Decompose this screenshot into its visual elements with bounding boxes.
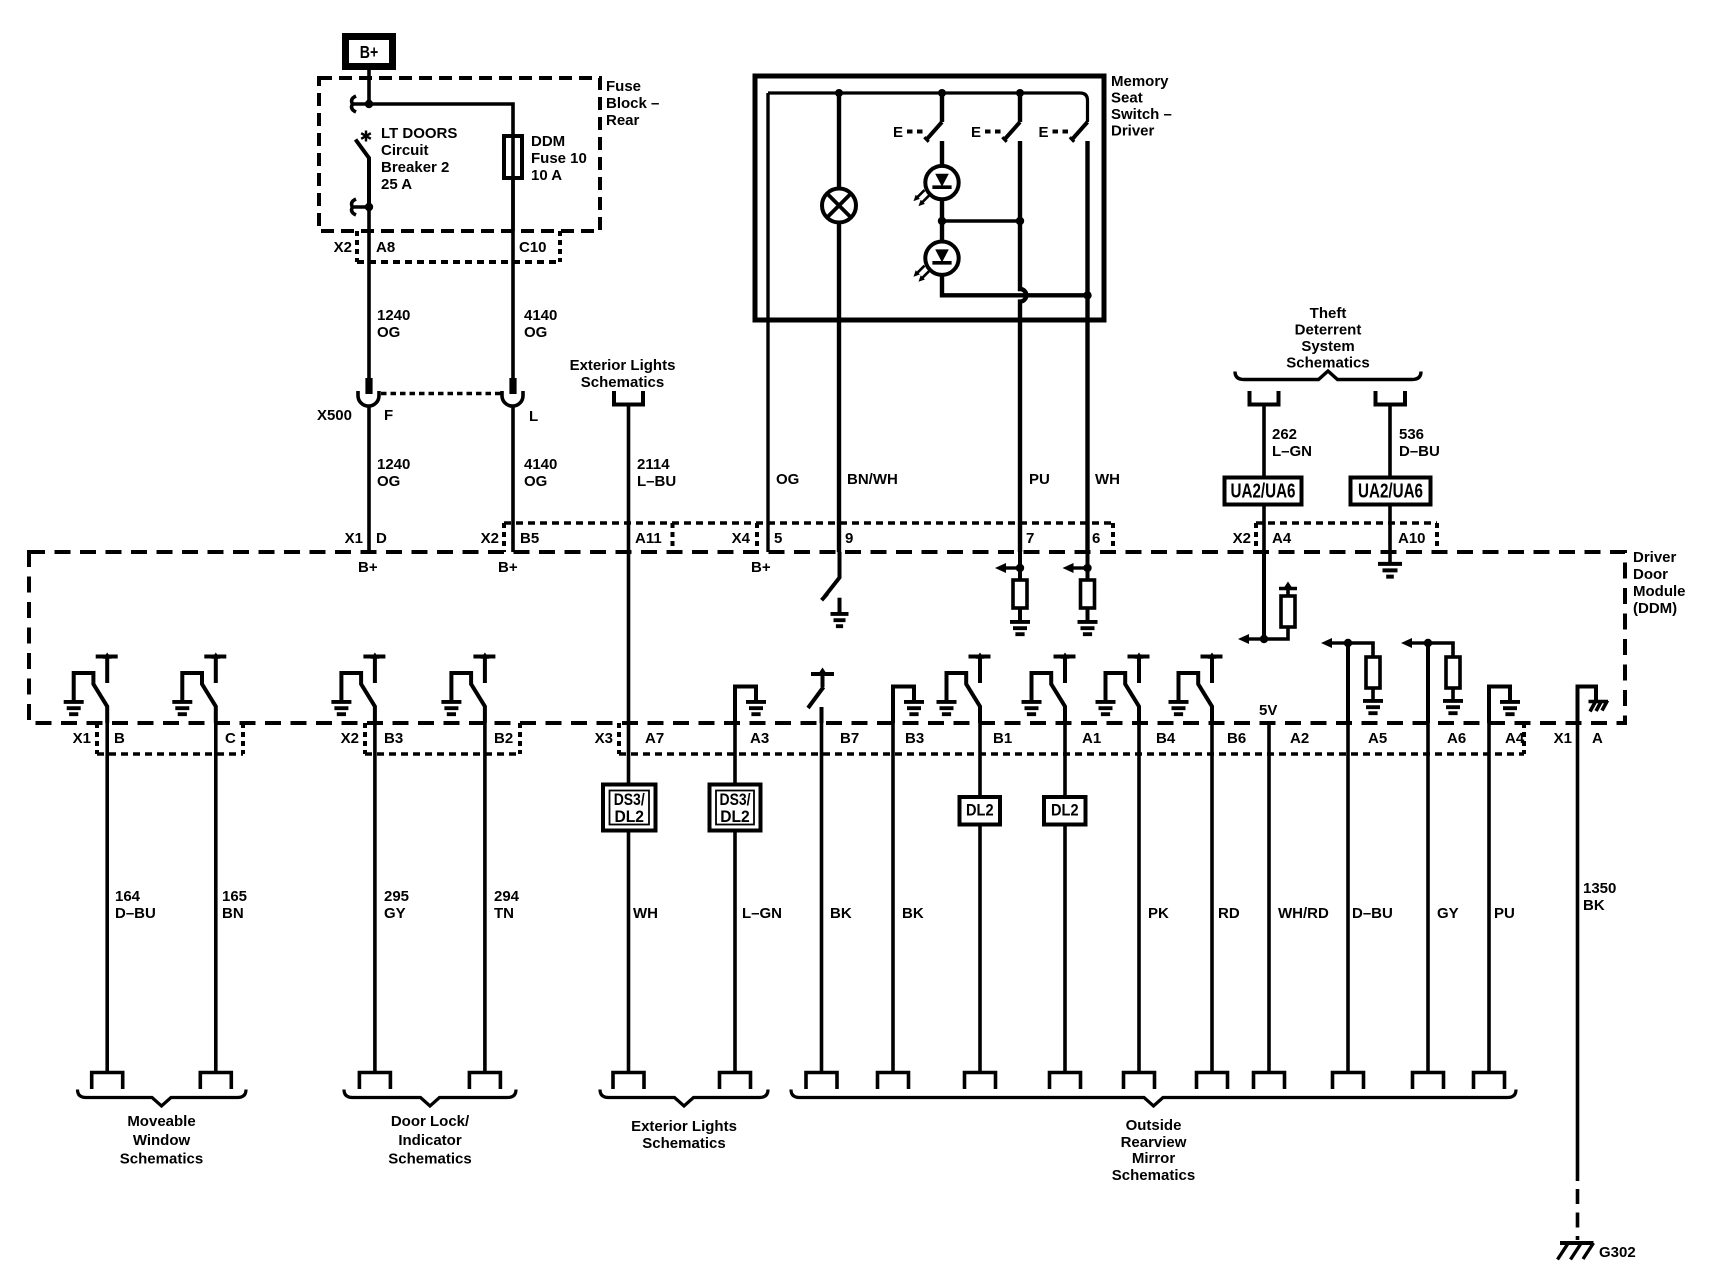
terminal connector 6: [720, 1073, 751, 1090]
wire drop 4: [483, 723, 487, 1073]
svg-text:Schematics: Schematics: [388, 1151, 471, 1168]
svg-text:10 A: 10 A: [531, 167, 562, 184]
svg-text:262: 262: [1272, 426, 1297, 443]
svg-text:Rearview: Rearview: [1121, 1134, 1187, 1151]
svg-text:L: L: [529, 408, 538, 425]
svg-text:164: 164: [115, 888, 141, 905]
ground A10: [1378, 564, 1402, 577]
wire UA2 right to A10: [1388, 506, 1392, 562]
ground hook A3: [735, 687, 756, 724]
node bus switch2 tap: [1016, 89, 1024, 97]
svg-text:L–GN: L–GN: [742, 905, 782, 922]
off-page connector 262: [1248, 391, 1281, 405]
svg-text:X1: X1: [345, 530, 363, 547]
svg-text:Door Lock/: Door Lock/: [391, 1113, 470, 1130]
svg-text:A1: A1: [1082, 730, 1101, 747]
dashed link between X500 halves: [381, 392, 501, 396]
wire internal bus: [768, 93, 1088, 122]
wire drop 16: [1487, 723, 1491, 1073]
switch mirror A1: [1061, 653, 1070, 659]
svg-text:7: 7: [1026, 530, 1034, 547]
svg-text:B+: B+: [360, 42, 379, 62]
svg-text:F: F: [384, 407, 393, 424]
svg-text:PU: PU: [1029, 471, 1050, 488]
LED indicator 1: [925, 166, 958, 199]
svg-text:4140: 4140: [524, 456, 557, 473]
wire A11 through module: [627, 552, 631, 723]
brace theft deterrent: [1235, 371, 1421, 380]
svg-text:5: 5: [774, 530, 782, 547]
wire 2114 to DDM A11: [627, 405, 631, 553]
resistor pin6 branch: [1086, 552, 1090, 620]
svg-text:Schematics: Schematics: [120, 1151, 203, 1168]
svg-text:5V: 5V: [1259, 702, 1277, 719]
wire LED junction link: [942, 219, 1020, 222]
terminal connector 13: [1254, 1073, 1285, 1090]
svg-text:DL2: DL2: [720, 807, 750, 826]
switch pin9 door lock: [822, 552, 840, 600]
svg-text:X2: X2: [341, 730, 359, 747]
off-page connector exterior lights: [612, 391, 645, 405]
svg-text:C: C: [225, 730, 236, 747]
wire L to DDM X2 B5: [511, 406, 515, 552]
svg-text:L–BU: L–BU: [637, 473, 676, 490]
node pin6 junction: [1083, 291, 1091, 299]
memory seat switch box: [755, 76, 1104, 320]
svg-text:295: 295: [384, 888, 409, 905]
wire drop 14: [1346, 723, 1350, 1073]
wire S1 to LED1: [940, 141, 944, 166]
svg-text:4140: 4140: [524, 307, 557, 324]
wire S2 to pin7 with hop: [1020, 141, 1026, 552]
wire drop 5: [627, 723, 631, 1073]
splice DS3/DL2 left: [603, 785, 656, 831]
ground pin9: [838, 598, 842, 612]
svg-text:Switch –: Switch –: [1111, 106, 1172, 123]
switch memory S3 blade: [1072, 122, 1088, 140]
inline connector X500 pin L: [509, 378, 516, 394]
node junction below breaker: [365, 203, 373, 211]
wire F to DDM X1 D: [367, 406, 371, 552]
wire drop 8: [891, 723, 895, 1073]
output network A5: [1346, 643, 1350, 723]
svg-text:DL2: DL2: [614, 807, 644, 826]
brace exterior lights: [600, 1090, 768, 1107]
switch unlock B2: [481, 653, 490, 659]
wire drop 13: [1267, 723, 1271, 1073]
wire pin5 feed: [766, 93, 769, 552]
svg-text:A10: A10: [1398, 530, 1426, 547]
switch memory S2 stub: [1018, 93, 1022, 122]
theft input network A4: [1262, 552, 1266, 639]
wire C10 to X500: [511, 178, 515, 378]
svg-text:BK: BK: [830, 905, 852, 922]
svg-text:WH: WH: [633, 905, 658, 922]
svg-text:Window: Window: [133, 1132, 191, 1149]
svg-text:DL2: DL2: [1051, 802, 1079, 820]
svg-text:X2: X2: [334, 239, 352, 256]
wire drop 11: [1137, 723, 1141, 1073]
terminal connector 14: [1333, 1073, 1364, 1090]
chassis ground G302: [1560, 1241, 1594, 1245]
svg-text:Memory: Memory: [1111, 73, 1169, 90]
connector row bottom dashes: [97, 752, 1524, 756]
connector row top dashes: [504, 521, 1113, 525]
svg-text:OG: OG: [524, 324, 547, 341]
svg-text:X2: X2: [481, 530, 499, 547]
svg-text:165: 165: [222, 888, 247, 905]
svg-text:OG: OG: [377, 324, 400, 341]
svg-text:1240: 1240: [377, 456, 410, 473]
svg-text:D–BU: D–BU: [1352, 905, 1393, 922]
wire dashed to G302: [1576, 1189, 1580, 1240]
terminal connector 3: [359, 1073, 390, 1090]
svg-text:B+: B+: [498, 559, 518, 576]
terminal connector 4: [469, 1073, 500, 1090]
svg-text:X2: X2: [1233, 530, 1251, 547]
wire drop 2: [214, 723, 218, 1073]
switch lever B7: [808, 674, 834, 708]
ground hook A4: [1489, 687, 1510, 724]
brace door lock indicator: [344, 1090, 516, 1107]
svg-text:Schematics: Schematics: [642, 1135, 725, 1152]
svg-text:A11: A11: [635, 530, 662, 547]
wire drop 7: [820, 723, 824, 1073]
output network A6: [1426, 643, 1430, 723]
svg-text:E: E: [1038, 124, 1048, 141]
svg-text:DL2: DL2: [966, 802, 994, 820]
connector row X2 fuse block bottom dashes: [357, 260, 560, 264]
switch mirror B4: [1135, 653, 1144, 659]
svg-text:B3: B3: [905, 730, 924, 747]
svg-text:B6: B6: [1227, 730, 1246, 747]
svg-text:Deterrent: Deterrent: [1295, 322, 1362, 339]
node LED junction left: [938, 217, 946, 225]
terminal connector 2: [200, 1073, 231, 1090]
splice DS3/DL2 right: [710, 785, 761, 831]
splice DL2 left: [960, 797, 1001, 825]
node junction B+ bus: [365, 100, 373, 108]
svg-text:A4: A4: [1505, 730, 1525, 747]
circuit breaker CB2 asterisk: [361, 131, 371, 142]
fuse DDM Fuse 10: [504, 136, 522, 178]
wire LED1 to LED2: [940, 199, 944, 241]
terminal connector 7: [806, 1073, 837, 1090]
svg-text:B+: B+: [751, 559, 771, 576]
terminal connector 11: [1124, 1073, 1155, 1090]
svg-text:A7: A7: [645, 730, 664, 747]
svg-text:E: E: [971, 124, 981, 141]
svg-text:OG: OG: [377, 473, 400, 490]
svg-text:WH: WH: [1095, 471, 1120, 488]
splice pack UA2/UA6 right: [1351, 478, 1431, 505]
svg-text:Theft: Theft: [1310, 305, 1347, 322]
svg-text:TN: TN: [494, 905, 514, 922]
svg-text:OG: OG: [776, 471, 799, 488]
svg-text:Schematics: Schematics: [1112, 1167, 1195, 1184]
svg-text:B+: B+: [358, 559, 378, 576]
wire drop 9: [978, 723, 982, 1073]
svg-text:B: B: [114, 730, 125, 747]
wire drop 1: [105, 723, 109, 1073]
wire 536 to UA2: [1388, 405, 1392, 477]
wire S3 to pin6: [1085, 141, 1089, 552]
svg-text:Outside: Outside: [1126, 1117, 1182, 1134]
svg-text:9: 9: [845, 530, 853, 547]
svg-text:LT DOORS: LT DOORS: [381, 125, 457, 142]
brace outside rearview mirror: [791, 1090, 1516, 1107]
wire UA2 left to A4: [1262, 506, 1266, 639]
wire drop 12: [1210, 723, 1214, 1073]
switch memory S2 blade: [1005, 122, 1021, 140]
circuit breaker CB2 top hook: [352, 96, 369, 112]
driver door module dashed box: [29, 552, 1625, 723]
wire drop A 1350 BK: [1576, 723, 1580, 1181]
brace moveable window: [78, 1090, 247, 1107]
svg-text:GY: GY: [1437, 905, 1459, 922]
terminal connector 9: [965, 1073, 996, 1090]
LED indicator 2: [925, 242, 958, 275]
svg-text:B4: B4: [1156, 730, 1176, 747]
svg-text:BK: BK: [902, 905, 924, 922]
svg-text:B7: B7: [840, 730, 859, 747]
svg-text:Mirror: Mirror: [1132, 1150, 1176, 1167]
svg-text:G302: G302: [1599, 1244, 1636, 1261]
svg-text:Driver: Driver: [1633, 549, 1677, 566]
terminal connector 8: [878, 1073, 909, 1090]
svg-text:B3: B3: [384, 730, 403, 747]
svg-text:Exterior Lights: Exterior Lights: [570, 357, 676, 374]
switch lock X2 B3: [371, 653, 380, 659]
svg-text:A8: A8: [376, 239, 395, 256]
svg-text:D: D: [376, 530, 387, 547]
node bus switch1 tap: [938, 89, 946, 97]
svg-text:2114: 2114: [637, 456, 670, 473]
svg-text:Exterior Lights: Exterior Lights: [631, 1118, 737, 1135]
terminal connector 5: [613, 1073, 644, 1090]
svg-text:System: System: [1301, 338, 1354, 355]
wire 262 to UA2: [1262, 405, 1266, 477]
svg-text:BN/WH: BN/WH: [847, 471, 898, 488]
wire drop 10: [1063, 723, 1067, 1073]
svg-text:D–BU: D–BU: [115, 905, 156, 922]
svg-text:Rear: Rear: [606, 112, 640, 129]
svg-text:Module: Module: [1633, 583, 1686, 600]
svg-text:X500: X500: [317, 407, 352, 424]
circuit breaker CB2 arm: [356, 140, 370, 208]
svg-text:Moveable: Moveable: [127, 1113, 195, 1130]
svg-text:X1: X1: [73, 730, 91, 747]
svg-text:PU: PU: [1494, 905, 1515, 922]
svg-text:X4: X4: [732, 530, 751, 547]
terminal connector 10: [1050, 1073, 1081, 1090]
splice DL2 right: [1044, 797, 1086, 825]
svg-text:Fuse: Fuse: [606, 78, 641, 95]
svg-text:1350: 1350: [1583, 880, 1616, 897]
svg-text:BN: BN: [222, 905, 244, 922]
svg-text:Breaker 2: Breaker 2: [381, 159, 449, 176]
svg-text:E: E: [893, 124, 903, 141]
wire drop 6: [733, 723, 737, 1073]
off-page connector 536: [1374, 391, 1408, 405]
svg-text:(DDM): (DDM): [1633, 600, 1677, 617]
switch memory S1 blade: [927, 122, 943, 140]
terminal connector 16: [1474, 1073, 1505, 1090]
svg-text:25 A: 25 A: [381, 176, 412, 193]
wire junction to fuse C10 branch: [369, 104, 513, 136]
svg-text:UA2/UA6: UA2/UA6: [1231, 480, 1296, 503]
svg-text:RD: RD: [1218, 905, 1240, 922]
svg-text:PK: PK: [1148, 905, 1169, 922]
switch mirror B6: [1208, 653, 1217, 659]
svg-text:A5: A5: [1368, 730, 1387, 747]
chassis ground hook X1 A: [1578, 687, 1597, 724]
svg-text:6: 6: [1092, 530, 1100, 547]
svg-text:A3: A3: [750, 730, 769, 747]
wire drop 15: [1426, 723, 1430, 1073]
svg-text:X3: X3: [595, 730, 613, 747]
svg-text:Driver: Driver: [1111, 123, 1155, 140]
switch window up X1 B: [103, 653, 112, 659]
svg-text:A4: A4: [1272, 530, 1292, 547]
svg-text:A2: A2: [1290, 730, 1309, 747]
svg-text:B2: B2: [494, 730, 513, 747]
svg-text:C10: C10: [519, 239, 547, 256]
lamp illumination: [822, 189, 856, 223]
svg-text:OG: OG: [524, 473, 547, 490]
fuse block rear dashed box: [319, 78, 600, 231]
node bus lamp tap: [835, 89, 843, 97]
svg-text:Circuit: Circuit: [381, 142, 429, 159]
svg-text:Seat: Seat: [1111, 90, 1143, 107]
wire A8 to X500: [367, 207, 371, 378]
svg-text:D–BU: D–BU: [1399, 443, 1440, 460]
resistor pin7 branch: [1018, 552, 1022, 620]
ground hook B3: [893, 687, 914, 724]
svg-text:Fuse 10: Fuse 10: [531, 150, 587, 167]
wire fuse branch vertical: [511, 136, 515, 231]
svg-text:294: 294: [494, 888, 520, 905]
svg-text:Block –: Block –: [606, 95, 659, 112]
svg-text:GY: GY: [384, 905, 406, 922]
splice pack UA2/UA6 left: [1225, 478, 1302, 505]
node LED junction right: [1016, 217, 1024, 225]
terminal connector 12: [1197, 1073, 1228, 1090]
wire drop 3: [373, 723, 377, 1073]
svg-text:Indicator: Indicator: [398, 1132, 462, 1149]
switch memory S1 stub: [940, 93, 944, 122]
svg-text:B5: B5: [520, 530, 539, 547]
svg-text:Schematics: Schematics: [581, 374, 664, 391]
svg-text:A6: A6: [1447, 730, 1466, 747]
svg-text:Door: Door: [1633, 566, 1668, 583]
circuit breaker CB2 bottom hook: [352, 199, 369, 215]
svg-text:WH/RD: WH/RD: [1278, 905, 1329, 922]
wire lamp feed: [837, 93, 841, 189]
battery feed B+ box: [346, 37, 393, 67]
svg-text:536: 536: [1399, 426, 1424, 443]
wire B+ to fuse block: [367, 70, 371, 104]
switch mirror B1: [976, 653, 985, 659]
switch window down C: [211, 653, 220, 659]
svg-text:B1: B1: [993, 730, 1012, 747]
svg-text:UA2/UA6: UA2/UA6: [1358, 480, 1423, 503]
terminal connector 1: [92, 1073, 123, 1090]
svg-text:BK: BK: [1583, 897, 1605, 914]
svg-text:L–GN: L–GN: [1272, 443, 1312, 460]
svg-text:1240: 1240: [377, 307, 410, 324]
wire lamp to pin9: [837, 223, 841, 553]
inline connector X500 pin F: [365, 378, 372, 394]
svg-text:X1: X1: [1554, 730, 1572, 747]
wire LED2 out: [942, 275, 1088, 295]
terminal connector 15: [1413, 1073, 1444, 1090]
svg-text:DDM: DDM: [531, 133, 565, 150]
svg-text:A: A: [1592, 730, 1603, 747]
connector row theft dashes: [1256, 521, 1437, 525]
